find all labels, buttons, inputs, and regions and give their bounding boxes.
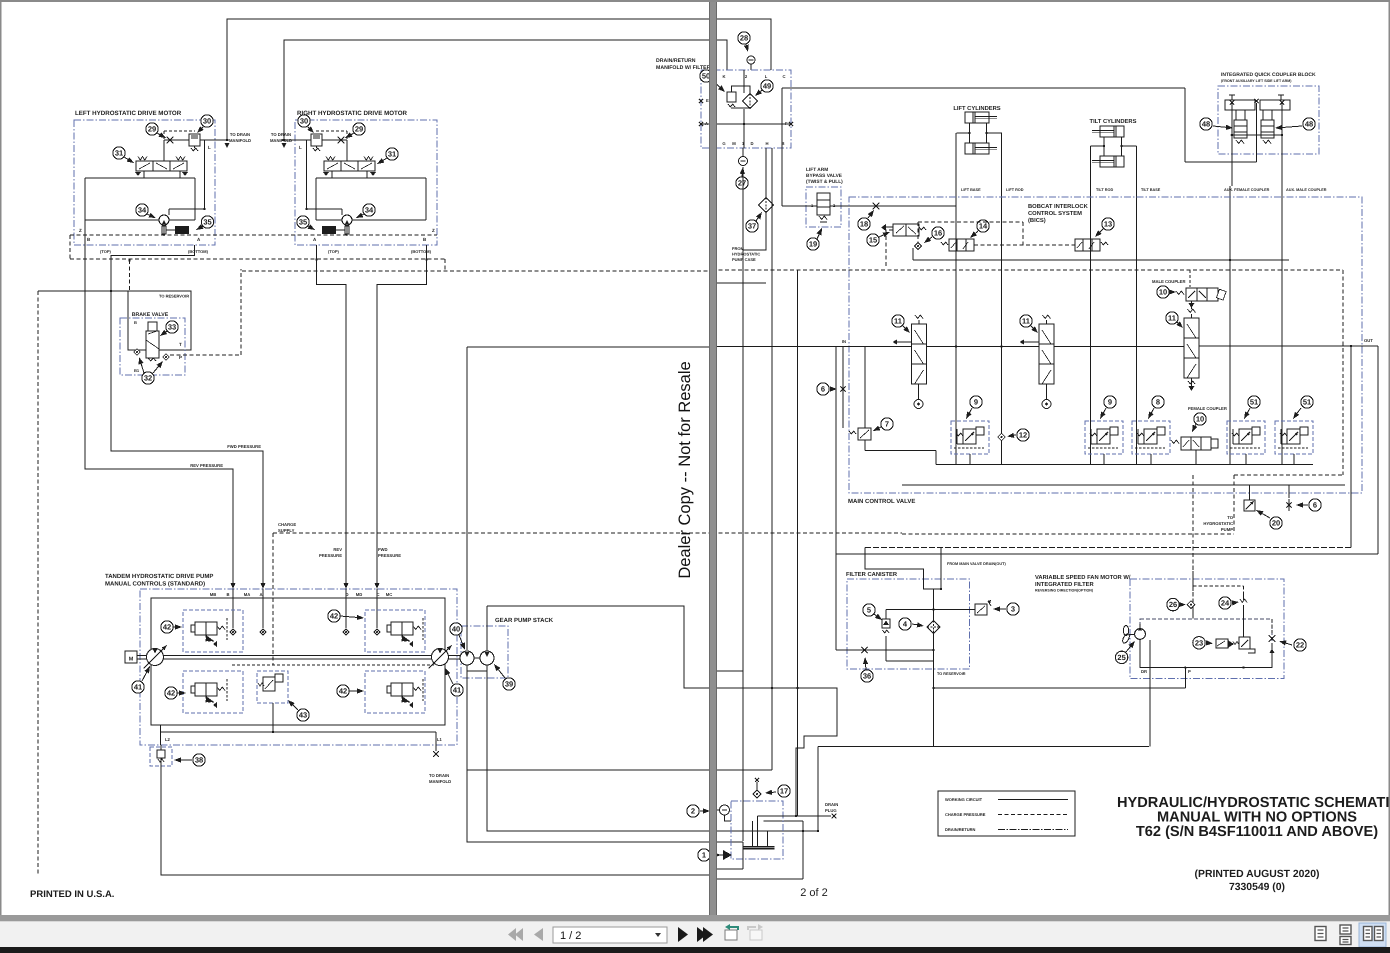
- right page bottom loop: [712, 769, 772, 771]
- svg-text:TILT BASE: TILT BASE: [1141, 188, 1161, 192]
- BICS check 16: [914, 242, 921, 249]
- svg-text:2: 2: [745, 74, 748, 79]
- svg-text:C: C: [782, 74, 785, 79]
- item 31 callout (left valve): [113, 147, 125, 159]
- gear pump stack box: [461, 626, 508, 678]
- manifold E/A ticks: [699, 99, 703, 103]
- left drain drop: [835, 346, 837, 650]
- breather check 17: [753, 790, 761, 798]
- svg-text:CONTROL SYSTEM: CONTROL SYSTEM: [1028, 210, 1082, 217]
- svg-text:PRESSURE: PRESSURE: [319, 553, 342, 558]
- charge to hydrostatic pump dashed: [1192, 475, 1194, 534]
- svg-text:PRESSURE: PRESSURE: [378, 553, 401, 558]
- svg-text:10: 10: [1196, 415, 1204, 424]
- svg-text:MAIN CONTROL VALVE: MAIN CONTROL VALVE: [848, 498, 915, 505]
- page number combo box: [553, 927, 667, 943]
- item 30 callout (left relief): [201, 115, 213, 127]
- dashed envelope lower line: [70, 258, 445, 260]
- item 43 servo valve: [257, 671, 288, 703]
- svg-text:18: 18: [860, 220, 868, 229]
- wire X to valve (right): [346, 140, 348, 161]
- IN line: [712, 346, 1184, 348]
- wire motor top (left): [169, 208, 205, 210]
- canister inlet pipe: [865, 548, 941, 590]
- fan relief spring 24: [1240, 599, 1247, 603]
- svg-text:MD: MD: [356, 592, 363, 597]
- svg-text:3: 3: [1011, 605, 1015, 614]
- svg-text:32: 32: [144, 374, 152, 383]
- svg-text:23: 23: [1195, 638, 1203, 647]
- drive pump 2: [429, 646, 452, 669]
- svg-text:L: L: [299, 145, 302, 150]
- svg-text:11: 11: [894, 317, 902, 326]
- lift base line: [955, 133, 957, 465]
- fan internal wires: [1139, 639, 1141, 667]
- item 32 callout (brake checks): [142, 372, 154, 384]
- lift cylinder 1: [965, 112, 997, 123]
- page fold bar: [709, 0, 717, 915]
- svg-text:A: A: [313, 237, 317, 242]
- svg-text:36: 36: [863, 672, 871, 681]
- item 43 callout: [297, 709, 309, 721]
- svg-text:D: D: [345, 592, 348, 597]
- svg-text:M: M: [129, 657, 134, 663]
- item 6 callout right: [1309, 499, 1321, 511]
- svg-text:HYDROSTATIC: HYDROSTATIC: [1203, 521, 1233, 526]
- item 35 callout (left brake): [201, 216, 213, 228]
- svg-text:DRAIN: DRAIN: [825, 802, 838, 807]
- canister top rail: [886, 609, 975, 611]
- svg-text:LIFT ARM: LIFT ARM: [806, 167, 828, 173]
- svg-text:42: 42: [163, 623, 171, 632]
- svg-text:49: 49: [763, 82, 771, 91]
- svg-text:15: 15: [869, 236, 877, 245]
- item 3 valve: [975, 604, 987, 615]
- relief 51a: [1227, 421, 1265, 454]
- facing pages layout icon (active): [1359, 923, 1386, 947]
- svg-text:L2: L2: [165, 737, 171, 742]
- item 11 callout (aux spool): [1166, 312, 1178, 324]
- svg-text:FWD PRESSURE: FWD PRESSURE: [227, 444, 261, 449]
- drain plug wire: [758, 815, 831, 817]
- item 28 callout: [738, 32, 750, 44]
- item 23 callout: [1193, 637, 1205, 649]
- item 12 check: [998, 433, 1006, 441]
- wires below valve (right): [331, 171, 333, 178]
- svg-text:PLUG: PLUG: [825, 808, 837, 813]
- long dashed return (right page bottom): [712, 532, 902, 534]
- main supply line to right page: [467, 346, 709, 348]
- MCV internal verticals: [864, 346, 866, 428]
- pilot dashes right motor: [316, 130, 347, 132]
- wire left motor case drain to drain manifold: [227, 19, 771, 141]
- svg-text:LEFT HYDROSTATIC DRIVE MOTOR: LEFT HYDROSTATIC DRIVE MOTOR: [75, 110, 182, 117]
- svg-text:TO DRAIN: TO DRAIN: [429, 773, 449, 778]
- drain bundle upper: [817, 747, 819, 832]
- fan check 26: [1187, 601, 1195, 609]
- svg-text:13: 13: [1104, 220, 1112, 229]
- tilt cylinder 2: [1092, 156, 1124, 167]
- item 34 callout (left motor): [136, 204, 148, 216]
- item 20 callout: [1270, 517, 1282, 529]
- charge supply dashed: [273, 532, 709, 534]
- wires below valve (left): [143, 171, 145, 178]
- item 49 callout: [761, 80, 773, 92]
- previous page button (disabled): [534, 928, 543, 941]
- svg-text:MALE COUPLER: MALE COUPLER: [1152, 279, 1186, 284]
- fan X valve 22: [1269, 635, 1276, 642]
- item 10 callout (male coupler): [1157, 286, 1169, 298]
- svg-text:TO DRAIN: TO DRAIN: [271, 132, 291, 137]
- svg-text:30: 30: [203, 117, 211, 126]
- svg-text:GEAR PUMP STACK: GEAR PUMP STACK: [495, 617, 554, 624]
- tilt base line: [1136, 146, 1138, 465]
- svg-text:REV: REV: [333, 547, 342, 552]
- svg-text:LIFT ROD: LIFT ROD: [1006, 188, 1024, 192]
- svg-text:MANUAL CONTROLS (STANDARD): MANUAL CONTROLS (STANDARD): [105, 581, 205, 588]
- BICS pilot dashed net: [974, 244, 1075, 246]
- svg-text:(BOTTOM): (BOTTOM): [188, 249, 209, 254]
- svg-text:41: 41: [134, 683, 142, 692]
- tandem pump box: [140, 589, 457, 745]
- wire X to valve (left): [163, 140, 165, 161]
- svg-text:37: 37: [748, 222, 756, 231]
- svg-text:FROM MAIN VALVE DRAIN(OUT): FROM MAIN VALVE DRAIN(OUT): [947, 562, 1006, 566]
- svg-text:TANDEM HYDROSTATIC DRIVE PUMP: TANDEM HYDROSTATIC DRIVE PUMP: [105, 573, 213, 580]
- tilt rod line: [1090, 146, 1092, 465]
- svg-text:TO DRAIN: TO DRAIN: [230, 132, 250, 137]
- fwd pressure line (left motor A): [111, 245, 263, 585]
- svg-text:29: 29: [148, 125, 156, 134]
- relief valve 30 (left): [189, 134, 200, 146]
- fan blades: [1123, 626, 1128, 636]
- svg-text:(FRONT AUXILIARY LIFT SIDE LIF: (FRONT AUXILIARY LIFT SIDE LIFT ARM): [1221, 79, 1292, 83]
- manifold internal wires: [743, 70, 745, 93]
- last page button: [697, 927, 713, 942]
- lift arm bypass valve box: [806, 187, 841, 227]
- svg-text:TO RESERVOIR: TO RESERVOIR: [159, 294, 189, 299]
- manifold vent: [747, 56, 755, 64]
- svg-text:FEMALE COUPLER: FEMALE COUPLER: [1188, 406, 1227, 411]
- fan solenoid valve 23: [1216, 639, 1228, 648]
- relief valve 30 (right): [311, 134, 322, 146]
- svg-text:26: 26: [1169, 600, 1177, 609]
- fan motor inner dashed: [1140, 619, 1272, 668]
- drive motor 4/3 valve (right): [323, 157, 376, 177]
- svg-text:(TOP): (TOP): [100, 249, 111, 254]
- item 48 callout right: [1303, 118, 1315, 130]
- MCV tank bus: [865, 450, 936, 452]
- big return rectangle: [487, 606, 709, 688]
- aux male line: [1281, 186, 1283, 465]
- spool bottom drops: [1195, 450, 1197, 465]
- svg-text:35: 35: [203, 218, 211, 227]
- pump charge gallery dashed: [232, 664, 434, 666]
- svg-text:34: 34: [138, 206, 147, 215]
- canister drain bus: [836, 649, 934, 651]
- svg-text:11: 11: [1168, 314, 1176, 323]
- servo box 4: [365, 671, 425, 713]
- svg-text:P: P: [1188, 669, 1191, 674]
- svg-text:31: 31: [388, 150, 396, 159]
- case drain from hydrostatic pump: [742, 167, 744, 841]
- svg-text:34: 34: [365, 206, 374, 215]
- svg-text:42: 42: [330, 612, 338, 621]
- charge dashed long (right page): [712, 269, 1343, 271]
- item 41 callout (pump1): [132, 681, 144, 693]
- svg-text:6: 6: [1313, 501, 1317, 510]
- reservoir box: [731, 801, 783, 859]
- fan motor box: [1130, 579, 1284, 679]
- item 38 callout: [193, 754, 205, 766]
- svg-text:L1: L1: [437, 737, 443, 742]
- wire relief line L (left): [164, 139, 189, 141]
- svg-text:B: B: [87, 237, 91, 242]
- item 48 callout left: [1200, 118, 1212, 130]
- engine M box: [125, 651, 137, 663]
- svg-text:REVERSING DIRECTION(OPTION): REVERSING DIRECTION(OPTION): [1035, 589, 1094, 593]
- filter canister box: [847, 579, 970, 669]
- item 6 symbol right: [1286, 502, 1291, 507]
- rev pressure line (left motor B): [85, 220, 233, 585]
- svg-text:INTEGRATED QUICK COUPLER BLOCK: INTEGRATED QUICK COUPLER BLOCK: [1221, 72, 1316, 78]
- svg-text:17: 17: [780, 787, 788, 796]
- svg-text:PUMP CASE: PUMP CASE: [732, 257, 756, 262]
- wire motor top (right): [307, 208, 343, 210]
- item 4 callout: [899, 618, 911, 630]
- female coupler valve: [1181, 437, 1211, 450]
- fan motor circle: [1135, 629, 1146, 640]
- right hydrostatic drive motor box: [295, 120, 437, 245]
- svg-text:20: 20: [1272, 519, 1280, 528]
- svg-text:41: 41: [453, 686, 461, 695]
- tandem pump inner box: [151, 598, 445, 725]
- svg-text:C: C: [376, 592, 379, 597]
- charge dashed box right: [1342, 270, 1344, 475]
- svg-text:31: 31: [115, 149, 123, 158]
- item 51 callout b: [1301, 396, 1313, 408]
- reservoir drain return: [712, 868, 743, 870]
- svg-text:PUMP: PUMP: [1221, 527, 1233, 532]
- gear return stub: [712, 670, 743, 672]
- svg-text:(BICS): (BICS): [1028, 217, 1046, 224]
- main control valve box: [849, 197, 1362, 493]
- drain plug X: [832, 814, 837, 819]
- lift spool handle: [918, 384, 920, 399]
- bypass valve body: [817, 193, 830, 215]
- next view button (disabled): [748, 924, 763, 940]
- brake check valves: [134, 349, 140, 355]
- manifold relief spring: [727, 92, 736, 102]
- svg-text:HYDROSTATIC: HYDROSTATIC: [732, 252, 760, 257]
- svg-text:E: E: [706, 98, 709, 103]
- drive motor (right): [342, 215, 352, 225]
- svg-text:Z: Z: [79, 228, 82, 233]
- svg-text:B: B: [423, 237, 427, 242]
- item 19 callout: [807, 238, 819, 250]
- wire through motor (right): [316, 219, 342, 221]
- item 25 callout: [1115, 651, 1127, 663]
- svg-text:27: 27: [738, 179, 746, 188]
- left hydrostatic drive motor box: [74, 120, 215, 245]
- svg-text:CHARGE: CHARGE: [278, 522, 296, 527]
- dashed envelope left edge: [69, 235, 71, 259]
- reservoir inlet arrow: [723, 850, 732, 860]
- svg-text:48: 48: [1202, 120, 1210, 129]
- svg-text:29: 29: [355, 125, 363, 134]
- BICS solenoid valve 14: [949, 239, 974, 251]
- gear pump pressure riser: [466, 347, 468, 650]
- svg-text:33: 33: [168, 323, 176, 332]
- svg-text:TO: TO: [1227, 515, 1233, 520]
- svg-text:48: 48: [1305, 120, 1313, 129]
- aux spool valve: [1184, 309, 1199, 378]
- svg-text:CHARGE PRESSURE: CHARGE PRESSURE: [945, 812, 986, 817]
- svg-text:50: 50: [702, 72, 710, 81]
- previous view button: [725, 924, 738, 940]
- svg-text:H: H: [765, 141, 768, 146]
- item 5 callout: [863, 604, 875, 616]
- item 2 callout: [687, 805, 699, 817]
- svg-text:40: 40: [452, 625, 460, 634]
- svg-text:51: 51: [1303, 398, 1311, 407]
- aux spool link: [1191, 301, 1193, 309]
- relief 9a: [951, 421, 989, 454]
- continuous layout icon: [1340, 925, 1351, 945]
- svg-text:MANIFOLD: MANIFOLD: [229, 138, 251, 143]
- return line mid: [467, 769, 709, 771]
- relief 9b: [1085, 421, 1123, 454]
- item 40 callout: [450, 623, 462, 635]
- svg-text:P: P: [179, 355, 182, 360]
- svg-text:INTEGRATED FILTER: INTEGRATED FILTER: [1035, 581, 1095, 588]
- coupler 1: [1225, 100, 1255, 110]
- svg-text:DR: DR: [1141, 669, 1147, 674]
- svg-text:BOBCAT INTERLOCK: BOBCAT INTERLOCK: [1028, 203, 1089, 210]
- legend box: [938, 791, 1075, 836]
- svg-text:LIFT BASE: LIFT BASE: [961, 188, 981, 192]
- svg-text:A: A: [197, 237, 201, 242]
- item 6 callout left: [817, 383, 829, 395]
- item 14 callout: [977, 220, 989, 232]
- lift spool port stubs: [897, 341, 911, 343]
- svg-text:30: 30: [300, 117, 308, 126]
- item 11 callout (tilt spool): [1020, 315, 1032, 327]
- servo box 1: [183, 610, 243, 652]
- canister X plug: [861, 647, 867, 653]
- svg-text:Dealer Copy -- Not for Resale: Dealer Copy -- Not for Resale: [676, 361, 694, 578]
- pump internal drain bus: [160, 725, 162, 746]
- canister bypass valve: [882, 619, 890, 628]
- gear pump line 2: [486, 606, 488, 651]
- right page drain lines: [712, 830, 818, 832]
- svg-text:12: 12: [1019, 431, 1027, 440]
- svg-text:43: 43: [299, 711, 307, 720]
- svg-text:B: B: [134, 320, 137, 325]
- gear pump suction line: [467, 665, 709, 842]
- svg-text:REV PRESSURE: REV PRESSURE: [190, 463, 223, 468]
- item 12 callout: [1017, 429, 1029, 441]
- item 7 valve: [858, 428, 871, 440]
- svg-text:AUX. FEMALE COUPLER: AUX. FEMALE COUPLER: [1224, 188, 1270, 192]
- item 18 X: [873, 203, 880, 210]
- reservoir tank symbol: [743, 846, 775, 848]
- wire right motor case drain to drain manifold: [284, 40, 727, 141]
- BICS lower solid line: [913, 259, 1289, 261]
- svg-text:LIFT CYLINDERS: LIFT CYLINDERS: [953, 105, 1000, 112]
- drive motor 4/3 valve (left): [135, 157, 188, 177]
- svg-text:SUPPLY: SUPPLY: [278, 528, 295, 533]
- svg-text:28: 28: [740, 34, 748, 43]
- to reservoir envelope: [128, 291, 191, 350]
- canister filter element: [927, 621, 940, 634]
- item 50 callout: [700, 70, 712, 82]
- svg-text:M: M: [732, 141, 736, 146]
- svg-text:MANIFOLD: MANIFOLD: [429, 779, 451, 784]
- brake valve box: [120, 318, 185, 375]
- svg-text:22: 22: [1296, 641, 1304, 650]
- svg-text:(PRINTED AUGUST 2020): (PRINTED AUGUST 2020): [1195, 869, 1320, 880]
- item 37 callout: [746, 220, 758, 232]
- manifold filter: [743, 94, 758, 109]
- item 22 callout: [1294, 639, 1306, 651]
- pump drive shaft: [137, 655, 466, 657]
- svg-text:8: 8: [1156, 398, 1160, 407]
- canister bypass branch: [885, 610, 887, 662]
- svg-text:MA: MA: [244, 592, 251, 597]
- lift cylinder wires: [969, 123, 971, 143]
- item 29 callout (right shuttle): [353, 123, 365, 135]
- svg-text:2 of 2: 2 of 2: [800, 887, 828, 899]
- item 42 callout 4: [337, 685, 349, 697]
- svg-text:10: 10: [1159, 288, 1167, 297]
- drive pump 1: [144, 646, 167, 669]
- svg-text:14: 14: [979, 222, 988, 231]
- pump port line extensions: [232, 589, 234, 628]
- svg-text:TILT CYLINDERS: TILT CYLINDERS: [1090, 118, 1137, 125]
- item 18 callout: [858, 218, 870, 230]
- item 1 callout: [698, 849, 710, 861]
- svg-text:6: 6: [821, 385, 825, 394]
- svg-text:51: 51: [1250, 398, 1258, 407]
- svg-text:38: 38: [195, 756, 203, 765]
- item 51 callout a: [1248, 396, 1260, 408]
- svg-text:DRAIN/RETURN: DRAIN/RETURN: [656, 58, 696, 64]
- svg-text:PRINTED IN U.S.A.: PRINTED IN U.S.A.: [30, 889, 114, 900]
- lift spool valve: [912, 315, 927, 384]
- next page button: [678, 927, 688, 942]
- item 8 callout: [1152, 396, 1164, 408]
- brake pilot dashed: [170, 354, 241, 356]
- item 20 symbol: [1244, 500, 1255, 511]
- coupler 2: [1260, 100, 1290, 110]
- male coupler pilot dashed: [1189, 270, 1191, 287]
- servo box 3: [365, 610, 425, 652]
- lift cylinder 2: [965, 143, 997, 154]
- svg-text:(BOTTOM): (BOTTOM): [411, 249, 432, 254]
- svg-text:T62 (S/N B4SF110011 AND ABOVE): T62 (S/N B4SF110011 AND ABOVE): [1136, 824, 1378, 840]
- wire bypass valve line: [782, 205, 817, 207]
- svg-text:B1: B1: [134, 368, 140, 373]
- svg-text:K: K: [722, 74, 725, 79]
- tilt spool handle: [1046, 384, 1048, 399]
- item 29 callout (left shuttle): [146, 123, 158, 135]
- svg-text:16: 16: [934, 229, 942, 238]
- OUT line: [1199, 345, 1378, 347]
- item 39 callout: [503, 678, 515, 690]
- svg-text:42: 42: [339, 687, 347, 696]
- item 31 callout (right valve): [386, 148, 398, 160]
